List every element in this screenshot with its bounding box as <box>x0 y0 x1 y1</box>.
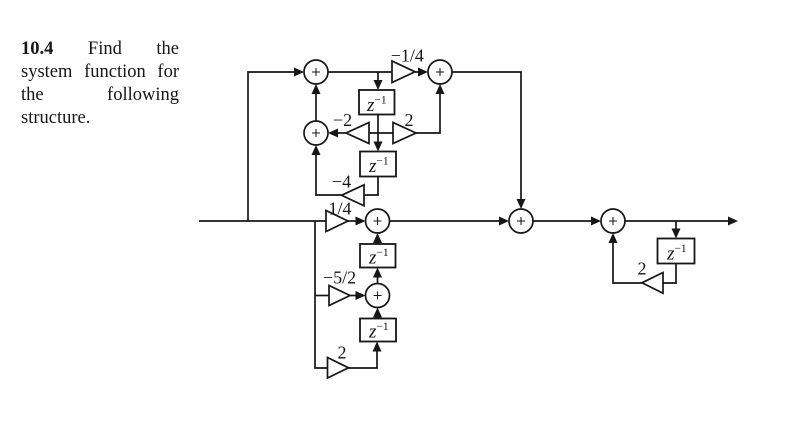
wire: Z4 output up to adder A7 <box>377 316 379 319</box>
adder A6 <box>601 209 625 233</box>
plus sign of A7 <box>374 292 382 300</box>
arrow: into Z5 top <box>672 229 681 239</box>
wire: A5 output to adder A6 <box>533 220 593 222</box>
wire: K4 output up to adder A3 <box>316 153 342 195</box>
wire: branch up to adder A1 <box>248 72 300 221</box>
arrow: into Z4 bottom <box>373 342 382 352</box>
wire: Z5 output to gain K8 <box>663 264 676 284</box>
arrow: into A1 left <box>294 68 304 77</box>
wire: K5 output to adder A4 <box>348 220 358 222</box>
svg-text:2: 2 <box>338 343 347 363</box>
wire: K8 output up to adder A6 <box>613 241 642 283</box>
gain K2 (-2) <box>346 123 369 144</box>
adder A1 <box>304 60 328 84</box>
delay Z5 <box>658 239 695 264</box>
wire: K2 output to adder A3 <box>336 132 346 134</box>
adder A3 <box>304 121 328 145</box>
plus sign of A1 <box>312 68 320 76</box>
gain K1 (-1/4) <box>392 61 415 83</box>
plus sign of A5 <box>517 217 525 225</box>
arrow: into A4 left <box>356 217 366 226</box>
svg-text:2: 2 <box>638 259 647 279</box>
arrow: into Z1 top <box>374 80 383 90</box>
wire: K6 output to adder A7 <box>350 295 358 297</box>
wire: A3 output up to A1 <box>315 92 317 121</box>
arrow: into A3 right <box>328 129 338 138</box>
svg-text:−4: −4 <box>332 172 351 192</box>
wire: K7 output up to Z4 <box>349 350 378 369</box>
delay Z1 <box>359 90 395 115</box>
gain K8 (2) <box>642 273 663 294</box>
delay Z3 <box>360 244 396 268</box>
plus sign of A4 <box>374 217 382 225</box>
wire: Z1 down to Z2 <box>377 115 379 145</box>
adder A4 <box>366 209 390 233</box>
wire: A2 output down to adder A5 <box>452 72 521 201</box>
wire: Z2 output to gain K4 <box>364 177 378 196</box>
delay Z2 <box>360 152 396 177</box>
wire: A4 output to adder A5 <box>390 220 502 222</box>
arrow: into Z2 top <box>374 142 383 152</box>
plus sign of A6 <box>609 217 617 225</box>
arrow: into A2 bottom <box>436 84 445 94</box>
wire: Z3 output up to adder A4 <box>377 241 379 244</box>
svg-text:−1/4: −1/4 <box>391 45 424 65</box>
wire: output tap down into delay Z5 <box>675 221 677 231</box>
wire: down-feed branch to K5,K6,K7 <box>315 221 328 368</box>
arrow: into A5 top <box>517 199 526 209</box>
svg-text:−2: −2 <box>333 110 352 130</box>
wire: output line <box>625 220 730 222</box>
wire: K3 output up to adder A2 <box>416 92 440 133</box>
svg-text:−5/2: −5/2 <box>323 268 356 288</box>
arrow: into A7 bottom <box>373 308 382 318</box>
plus sign of A3 <box>312 129 320 137</box>
arrow: into A2 left <box>418 68 428 77</box>
wire: branch to gain K6 <box>315 295 329 297</box>
arrow: into A4 bottom <box>373 233 382 243</box>
gain K5 (1/4) <box>326 211 348 232</box>
arrow: into A6 bottom <box>609 233 618 243</box>
wire: junction feeding gains K2 and K3 <box>369 132 393 134</box>
gain K7 (2) <box>328 358 349 379</box>
wire: A7 output up to Z3 <box>377 276 379 284</box>
arrow: A3 to A1, into A1 bottom <box>312 84 321 94</box>
gain K4 (-4) <box>342 185 365 206</box>
arrow: output arrowhead <box>728 217 738 226</box>
gain K3 (2) <box>393 123 416 144</box>
wire: main input line <box>199 220 326 222</box>
wire: A1 output to gain K1 <box>328 71 392 73</box>
adder A5 <box>509 209 533 233</box>
arrow: into A7 left <box>356 291 366 300</box>
arrow: into A3 bottom <box>312 145 321 155</box>
adder A2 <box>428 60 452 84</box>
delay Z4 <box>360 319 396 342</box>
svg-text:2: 2 <box>405 110 414 130</box>
wire: K1 output to adder A2 <box>415 71 420 73</box>
arrow: into A5 left <box>499 217 509 226</box>
plus sign of A2 <box>436 68 444 76</box>
adder A7 <box>366 284 390 308</box>
arrow: into A6 left <box>591 217 601 226</box>
gain K6 (-5/2) <box>329 286 350 306</box>
svg-text:1/4: 1/4 <box>328 199 351 219</box>
arrow: into A4 bottom from Z3 (none extra) into Z3 bottom <box>373 268 382 278</box>
wire: tap down into delay Z1 <box>377 72 379 83</box>
